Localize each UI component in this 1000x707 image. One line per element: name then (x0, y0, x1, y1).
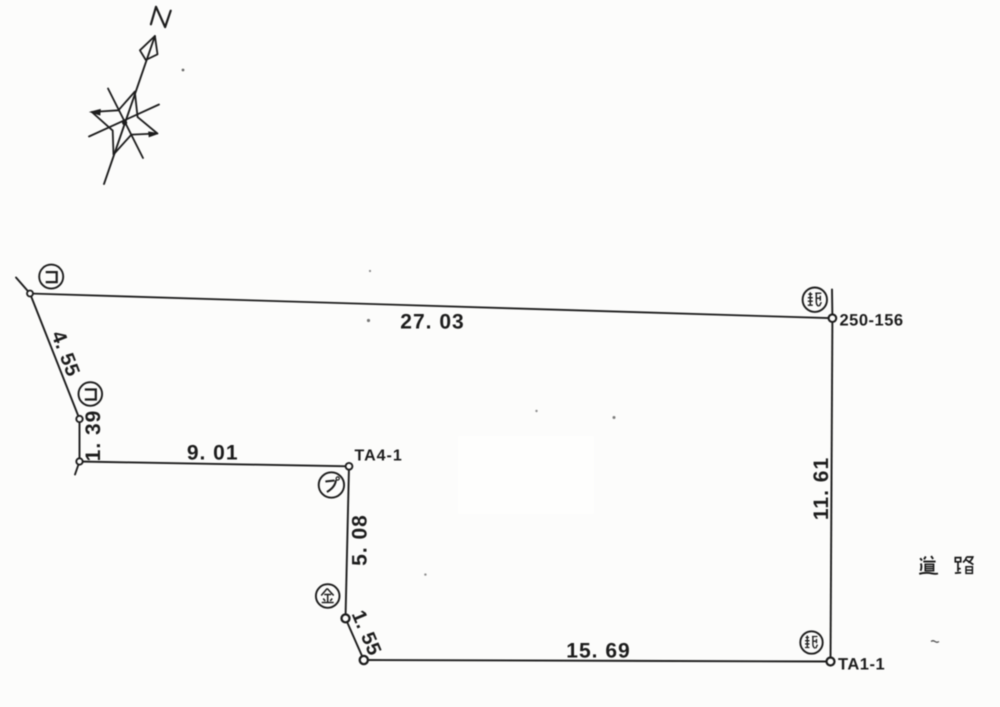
boundary edge H-A (27.03 top edge) (30, 294, 832, 319)
vertex E (342, 614, 350, 622)
vertex F (360, 656, 368, 664)
north arrow left arrowhead (91, 110, 100, 115)
scan speck 7 (424, 573, 426, 575)
tick above vertex H (831, 290, 833, 319)
svg-text:9. 01: 9. 01 (187, 441, 239, 464)
north arrow star center dot (122, 120, 127, 125)
svg-text:5. 08: 5. 08 (349, 514, 372, 566)
scan speck 4 (535, 410, 537, 412)
north arrow crossing line lower-left to upper-right (89, 105, 159, 137)
north arrow main axis line (104, 36, 155, 184)
svg-text:11. 61: 11. 61 (810, 457, 833, 520)
boundary edge A-B (4.55) (30, 294, 80, 420)
scan speck 5 (tilde mark near road) (931, 641, 939, 643)
marker circle KO (katakana) at vertex B (79, 382, 103, 406)
north arrow N letter (151, 7, 171, 27)
tick beyond vertex A (upper-left) (16, 278, 30, 294)
tick below vertex C (75, 462, 80, 475)
marker circle PU (katakana, plastic stake) at vertex D (319, 472, 344, 497)
north arrow right arrowhead (149, 132, 158, 137)
svg-text:TA1-1: TA1-1 (838, 656, 885, 674)
road label DOU (道) (919, 556, 938, 574)
north arrow kite (140, 36, 158, 60)
svg-text:250-156: 250-156 (840, 312, 904, 330)
svg-text:1. 39: 1. 39 (82, 410, 105, 462)
scan speck 6 (369, 270, 371, 272)
svg-text:TA4-1: TA4-1 (355, 448, 403, 465)
north arrow crossing line upper-left to lower-right (108, 89, 143, 159)
vertex A (27, 291, 33, 297)
scan speck 1 (182, 69, 185, 72)
svg-text:27. 03: 27. 03 (400, 310, 464, 333)
boundary edge E-F (1.55) (346, 618, 364, 660)
scan speck 2 (367, 319, 370, 322)
marker circle KO (katakana) at vertex A (39, 265, 63, 289)
svg-text:15. 69: 15. 69 (566, 640, 630, 663)
road label RO (路) (955, 557, 974, 573)
scanner white patch (458, 436, 594, 514)
north arrow four-point star outline (92, 92, 158, 155)
boundary edge B-C (1.39) (79, 419, 81, 462)
marker circle BYO (metal pin) at vertex G (800, 631, 822, 653)
marker circle BYO (metal pin) at vertex H (803, 288, 827, 312)
boundary edge C-D (9.01) (80, 462, 350, 467)
scan speck 3 (613, 416, 616, 419)
boundary edge F-G (15.69) (364, 660, 831, 662)
vertex H 250-156 (829, 314, 837, 322)
marker circle KIN (metal plate) at vertex E (316, 584, 340, 608)
boundary edge D-E (5.08) (346, 466, 350, 618)
vertex G TA1-1 (827, 658, 835, 666)
vertex B (76, 416, 82, 422)
vertex C (76, 458, 82, 464)
vertex D TA4-1 (346, 463, 353, 470)
boundary edge G-H (11.61) (831, 318, 833, 661)
